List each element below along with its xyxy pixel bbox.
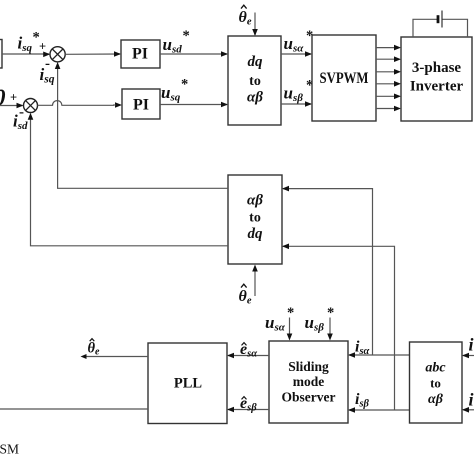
- block: PI controller 2: [122, 89, 160, 119]
- node label: theta_e hat (PLL output): [88, 339, 101, 358]
- wire: i_sa from abc->ab into observer: [348, 352, 410, 358]
- svg-text:αβ: αβ: [247, 193, 263, 209]
- wire: u_sb* from dq->ab to SVPWM: [281, 101, 312, 107]
- svg-text:mode: mode: [293, 374, 325, 389]
- block: dq to alpha-beta transform: [228, 36, 281, 125]
- wire: i_sd feedback from ab->dq block to J2: [28, 113, 228, 246]
- block: sliding mode observer: [269, 341, 348, 423]
- svg-text:αβ: αβ: [247, 90, 263, 106]
- svg-text:-: -: [19, 105, 24, 121]
- svg-text:i: i: [469, 335, 474, 355]
- wire: DC-link loop to battery: [413, 19, 468, 37]
- wire: u_sb* into top of observer: [327, 318, 333, 341]
- wire: phase current i_a from right edge into abc->ab: [462, 353, 474, 359]
- node label: i_sq feedback: [40, 65, 55, 86]
- svg-text:PI: PI: [132, 46, 148, 63]
- node label: i_sq* with plus sign: [18, 30, 47, 55]
- wire: theta_e into top of dq->ab block: [252, 13, 258, 37]
- node label: i_sd feedback: [13, 112, 28, 133]
- block: reference source (cut off at left edge): [0, 40, 2, 69]
- svg-text:αβ: αβ: [428, 392, 444, 407]
- node label: e_sb hat: [240, 395, 257, 414]
- node label: theta_e hat (into ab->dq from below): [239, 284, 252, 306]
- svg-text:PLL: PLL: [174, 376, 203, 392]
- svg-text:0: 0: [0, 86, 6, 112]
- wire: i_sq feedback from ab->dq block to J1: [55, 62, 228, 188]
- wire: i_sq* reference into summing junction J1: [2, 52, 50, 58]
- node label: 0 reference (cut at edge) with plus: [0, 86, 17, 112]
- svg-text:to: to: [249, 211, 261, 226]
- svg-text:3-phase: 3-phase: [412, 60, 462, 76]
- svg-text:i: i: [469, 390, 474, 410]
- node label: i_a (cut at edge): [469, 335, 474, 355]
- summing junction J2: [24, 99, 38, 113]
- wire: J2 to PI controller 2 (with hop over i_sq feedback line): [38, 101, 123, 108]
- node label: i_sa: [355, 339, 370, 358]
- wire: i_sb branch up to ab->dq block: [282, 244, 395, 411]
- wire: J1 to PI controller 1: [65, 51, 121, 57]
- svg-text:-: -: [45, 56, 50, 72]
- wire: u_sa* into top of observer: [287, 318, 293, 341]
- battery (DC source): [438, 11, 442, 28]
- block: SVPWM: [312, 35, 376, 121]
- minus sign at J1: [45, 56, 50, 72]
- node label: u_sd*: [163, 28, 190, 56]
- node label: SM (PMSM, cut at edge): [0, 442, 19, 457]
- svg-text:dq: dq: [248, 54, 264, 70]
- wire: e_sb hat from observer to PLL: [227, 407, 269, 413]
- wire: speed output of PLL to left edge (to PMSM): [0, 408, 148, 410]
- wire: theta_e into bottom of ab->dq block: [252, 265, 258, 297]
- node label: u_sa* into observer: [265, 305, 294, 334]
- node label: theta_e hat (top, into dq->ab): [239, 5, 252, 27]
- wire: theta_e hat output of PLL: [81, 354, 149, 359]
- node label: e_sa hat: [240, 341, 257, 360]
- node label: u_sa*: [284, 28, 314, 55]
- wire: 0 reference into summing junction J2: [0, 103, 24, 109]
- wire: u_sa* from dq->ab to SVPWM: [281, 51, 312, 57]
- node label: u_sb* into observer: [305, 305, 335, 334]
- svg-text:*: *: [287, 305, 294, 321]
- svg-text:dq: dq: [248, 226, 264, 242]
- wires: six gate signals SVPWM to inverter: [376, 45, 401, 112]
- node label: i_b (cut at edge): [469, 390, 474, 410]
- svg-text:abc: abc: [425, 361, 446, 376]
- wire: i_sa branch up to ab->dq block: [282, 186, 373, 355]
- wire: e_sa hat from observer to PLL: [227, 353, 269, 359]
- svg-text:SVPWM: SVPWM: [320, 70, 369, 87]
- block: PLL: [148, 343, 227, 424]
- block: alpha-beta to dq transform: [228, 175, 282, 264]
- wire: PI2 output u_sq* to dq->ab block: [160, 102, 228, 108]
- block: abc to alpha-beta transform: [410, 342, 463, 423]
- svg-text:Inverter: Inverter: [410, 79, 464, 95]
- svg-text:*: *: [181, 77, 188, 93]
- svg-text:SM: SM: [0, 442, 19, 457]
- wire: PI1 output u_sd* to dq->ab block: [160, 51, 228, 57]
- svg-text:Observer: Observer: [282, 390, 336, 405]
- summing junction J1: [50, 47, 65, 62]
- svg-text:*: *: [327, 305, 334, 321]
- block: PI controller 1: [121, 40, 160, 68]
- svg-text:to: to: [249, 74, 261, 89]
- svg-text:PI: PI: [133, 97, 149, 114]
- block: 3-phase inverter: [401, 37, 472, 121]
- node label: u_sq*: [161, 77, 188, 104]
- minus sign at J2: [19, 105, 24, 121]
- wire: phase current i_b from right edge into abc->ab: [462, 407, 474, 413]
- svg-text:+: +: [39, 40, 46, 54]
- wire: i_sb from abc->ab into observer: [348, 407, 410, 413]
- svg-text:Sliding: Sliding: [288, 359, 329, 374]
- node label: i_sb: [355, 391, 370, 410]
- svg-text:+: +: [10, 91, 17, 105]
- node label: u_sb*: [284, 78, 314, 105]
- svg-text:to: to: [430, 376, 441, 391]
- svg-text:*: *: [183, 28, 190, 44]
